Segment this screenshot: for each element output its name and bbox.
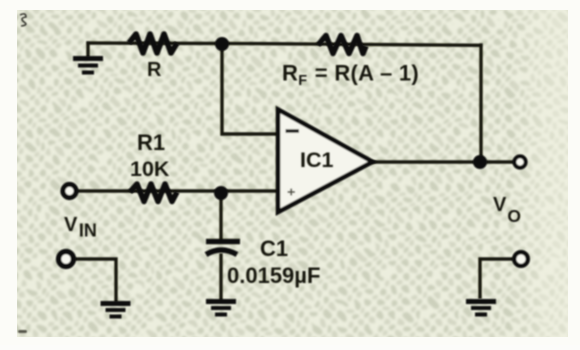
svg-text:0.0159µF: 0.0159µF bbox=[227, 263, 320, 288]
svg-text:R: R bbox=[147, 59, 162, 81]
svg-text:10K: 10K bbox=[130, 157, 170, 181]
svg-text:C1: C1 bbox=[260, 236, 288, 261]
svg-text:IC1: IC1 bbox=[300, 148, 334, 172]
svg-text:R1: R1 bbox=[137, 130, 165, 155]
